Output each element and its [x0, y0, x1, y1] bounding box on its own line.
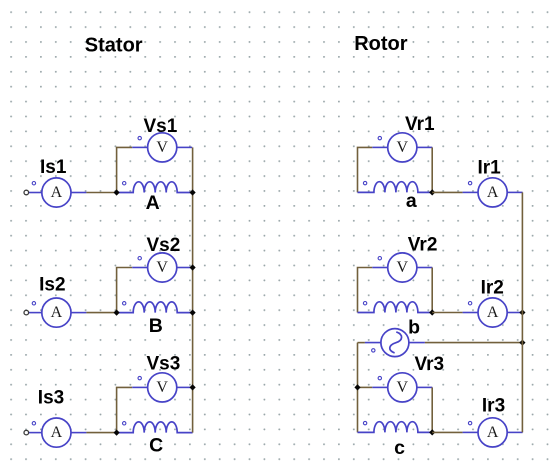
node rotor b [429, 309, 435, 315]
inductor c [358, 421, 433, 432]
voltmeter Vs2 [132, 253, 192, 282]
wire Is1 to node [86, 192, 116, 194]
terminal T3 [24, 430, 29, 435]
svg-text:A: A [51, 304, 63, 321]
node Vr3 left [354, 384, 360, 390]
svg-text:B: B [149, 315, 163, 337]
svg-text:Vr3: Vr3 [415, 354, 445, 375]
svg-text:Ir3: Ir3 [482, 396, 505, 417]
svg-text:Vs3: Vs3 [147, 354, 181, 375]
wire Vr3 down to node [431, 387, 433, 432]
wire Vr3 left stub [358, 386, 373, 388]
wire node to Ir1 [432, 191, 462, 193]
svg-text:A: A [146, 192, 160, 214]
node bus ac [519, 340, 525, 346]
svg-text:Vr1: Vr1 [405, 114, 435, 135]
svg-text:Vs2: Vs2 [147, 235, 181, 256]
node bus Vs2 [190, 264, 196, 270]
wire riser to Vs1 [117, 147, 133, 192]
node bus B [190, 310, 196, 316]
inductor A [117, 182, 193, 193]
svg-text:Rotor: Rotor [354, 33, 408, 55]
svg-text:V: V [156, 259, 168, 276]
wire riser to Vs3 [117, 387, 133, 432]
wire node to Ir2 [432, 312, 462, 314]
node rotor c [429, 429, 435, 435]
ammeter Ir3 [463, 418, 523, 447]
wire Vr2 down to node [431, 268, 433, 313]
wire riser Vr1 left [358, 147, 373, 192]
svg-text:A: A [51, 424, 63, 441]
svg-text:Vr2: Vr2 [408, 234, 438, 255]
svg-text:a: a [406, 190, 417, 212]
svg-text:A: A [51, 184, 63, 201]
terminal T1 [24, 190, 29, 195]
svg-text:Vs1: Vs1 [144, 116, 178, 137]
voltmeter Vr1 [372, 133, 432, 162]
wire Is2 to node [86, 312, 116, 314]
svg-text:Ir1: Ir1 [478, 158, 502, 179]
wire ac right to bus [425, 342, 523, 344]
terminal T2 [24, 310, 29, 315]
voltmeter Vs1 [132, 133, 192, 162]
wire Vr1 down to node [431, 147, 433, 192]
svg-text:Ir2: Ir2 [481, 278, 504, 299]
ammeter Is3 [26, 418, 86, 447]
svg-text:A: A [487, 304, 499, 321]
wire Is3 to node [86, 432, 116, 434]
svg-text:Is1: Is1 [40, 157, 67, 178]
wire stator bus [192, 193, 194, 433]
svg-text:V: V [156, 379, 168, 396]
wire riser Vr2 left [358, 268, 373, 313]
svg-text:V: V [156, 139, 168, 156]
wire Vs1 down to bus [192, 147, 194, 192]
node bus Vs3 [190, 384, 196, 390]
inductor C [117, 422, 193, 433]
voltmeter Vr2 [372, 253, 432, 282]
svg-text:c: c [394, 437, 405, 459]
voltmeter Vr3 [372, 373, 432, 402]
node bus A [190, 189, 196, 195]
svg-text:V: V [397, 139, 409, 156]
svg-text:Is2: Is2 [39, 275, 65, 296]
svg-text:b: b [408, 317, 420, 339]
inductor a [358, 181, 433, 192]
node stator A left [114, 189, 120, 195]
wire riser to Vs2 [117, 268, 133, 313]
wire node to Ir3 [432, 431, 462, 433]
node rotor a [429, 189, 435, 195]
svg-text:Stator: Stator [85, 34, 143, 56]
ammeter Ir1 [463, 178, 523, 207]
node bus Ir2 [519, 309, 525, 315]
ammeter Is2 [26, 298, 86, 327]
ac source [365, 329, 425, 357]
inductor B [117, 302, 193, 313]
inductor b [358, 302, 433, 313]
svg-text:A: A [487, 424, 499, 441]
wire rotor left drop [357, 343, 359, 433]
wire ac left [358, 342, 365, 344]
svg-text:C: C [149, 435, 163, 457]
ammeter Is1 [26, 178, 86, 207]
svg-text:V: V [397, 379, 409, 396]
ammeter Ir2 [463, 298, 523, 327]
svg-text:V: V [397, 259, 409, 276]
voltmeter Vs3 [132, 373, 192, 402]
svg-text:Is3: Is3 [38, 387, 64, 408]
wire rotor bus [521, 192, 523, 432]
node stator C left [114, 430, 120, 436]
node stator B left [114, 310, 120, 316]
svg-text:A: A [487, 184, 499, 201]
